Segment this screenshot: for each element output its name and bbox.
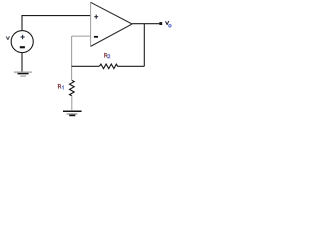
op-amp U1 triangle	[91, 2, 133, 46]
wire R2 right to feedback corner	[118, 65, 145, 67]
wire from source top to op-amp + input	[22, 16, 91, 31]
label R2	[105, 53, 111, 58]
ground (bottom, under R1)	[63, 111, 82, 115]
minus sign op-amp (inverting input)	[94, 36, 98, 38]
resistor R2 (horizontal zigzag)	[99, 64, 117, 69]
wire from source bottom to ground	[21, 53, 23, 72]
wire op-amp output	[132, 23, 159, 25]
wire feedback vertical up to output	[143, 24, 145, 67]
ground (left, under source)	[14, 72, 32, 76]
wire R1 bottom lead to ground (gray)	[71, 96, 73, 110]
resistor R1 (vertical zigzag)	[70, 80, 75, 96]
plus sign inside source	[21, 35, 25, 39]
output terminal square dot	[159, 22, 162, 25]
label v (input source)	[6, 37, 9, 40]
voltage source V1 (circle)	[11, 31, 33, 53]
wire inverting input stub (gray)	[72, 35, 91, 37]
node A: feedback junction wire horizontal to R2	[72, 65, 100, 67]
label vo (output)	[166, 21, 169, 24]
plus sign op-amp (noninverting input)	[94, 15, 98, 19]
label R1	[58, 84, 63, 89]
wire vertical from inverting input down to R1/R2 node (gray)	[71, 36, 73, 80]
minus sign inside source	[20, 46, 25, 48]
